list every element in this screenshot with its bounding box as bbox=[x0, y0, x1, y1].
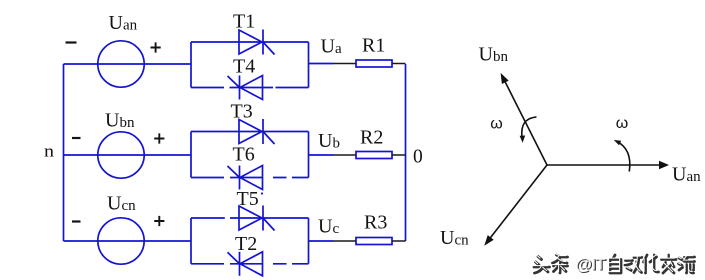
svg-text:T1: T1 bbox=[233, 11, 255, 33]
svg-text:Uan: Uan bbox=[672, 164, 701, 186]
svg-text:T4: T4 bbox=[233, 56, 255, 78]
svg-text:Uan: Uan bbox=[109, 12, 138, 34]
svg-text:Ubn: Ubn bbox=[105, 110, 135, 132]
svg-text:@IT: @IT bbox=[575, 254, 606, 273]
svg-text:T6: T6 bbox=[233, 144, 255, 166]
svg-text:Ub: Ub bbox=[318, 130, 340, 152]
svg-text:n: n bbox=[44, 142, 55, 161]
svg-text:R1: R1 bbox=[362, 35, 385, 57]
svg-text:Ua: Ua bbox=[321, 36, 342, 58]
svg-text:Ubn: Ubn bbox=[479, 43, 509, 65]
svg-text:R3: R3 bbox=[364, 212, 387, 234]
svg-text:Ucn: Ucn bbox=[440, 227, 469, 249]
svg-text:0: 0 bbox=[413, 146, 423, 167]
svg-text:R2: R2 bbox=[360, 127, 383, 149]
svg-text:T2: T2 bbox=[235, 233, 257, 255]
svg-text:Ucn: Ucn bbox=[107, 193, 136, 215]
svg-text:Uc: Uc bbox=[318, 216, 339, 238]
svg-text:T3: T3 bbox=[231, 101, 253, 123]
svg-text:ω: ω bbox=[490, 116, 503, 133]
svg-text:T5: T5 bbox=[237, 188, 259, 210]
svg-text:ω: ω bbox=[616, 115, 629, 132]
